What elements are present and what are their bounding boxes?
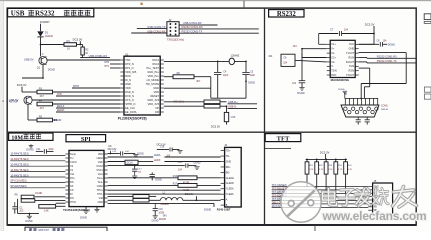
svg-text:4.7K: 4.7K	[309, 169, 314, 171]
svg-text:EECLK: EECLK	[57, 106, 65, 108]
svg-text:R1: R1	[67, 39, 71, 43]
svg-text:PL2303X(SSOP28): PL2303X(SSOP28)	[118, 117, 147, 121]
svg-text:4.7K: 4.7K	[328, 169, 333, 171]
svg-text:RXD: RXD	[125, 74, 131, 78]
svg-text:USB-5V: USB-5V	[24, 57, 34, 61]
svg-text:VDD: VDD	[98, 153, 103, 156]
svg-text:YLEDA: YLEDA	[226, 188, 234, 191]
svg-text:C1+: C1+	[331, 43, 336, 46]
svg-text:DGND: DGND	[194, 163, 201, 165]
svg-text:T2IN: T2IN	[331, 70, 337, 73]
svg-text:DGND: DGND	[204, 209, 211, 212]
svg-text:TPIN: TPIN	[70, 201, 76, 204]
svg-text:DC3.3V: DC3.3V	[365, 22, 375, 26]
svg-text:GND_3V3: GND_3V3	[147, 98, 159, 102]
svg-text:DGND: DGND	[26, 149, 33, 152]
svg-text:RTS: RTS	[105, 66, 110, 68]
svg-text:VCC: VCC	[349, 43, 354, 46]
svg-text:RX-: RX-	[70, 181, 74, 184]
svg-text:DGND: DGND	[388, 44, 395, 47]
svg-text:TRI_STATE: TRI_STATE	[146, 82, 160, 86]
svg-text:CLKO: CLKO	[70, 161, 77, 164]
svg-text:R1IN: R1IN	[349, 56, 355, 59]
svg-text:GLEDK: GLEDK	[226, 182, 235, 185]
svg-text:DGND: DGND	[155, 180, 162, 182]
svg-text:FB0608: FB0608	[161, 204, 170, 206]
svg-text:Q1: Q1	[37, 66, 41, 70]
svg-text:4.7K: 4.7K	[319, 169, 324, 171]
svg-text:DGND: DGND	[80, 217, 87, 220]
svg-text:VDD_3V3: VDD_3V3	[148, 102, 160, 106]
svg-text:MAX3232CSE: MAX3232CSE	[331, 78, 350, 82]
svg-text:C15: C15	[158, 209, 163, 211]
svg-text:C: C	[42, 53, 44, 56]
svg-text:104F: 104F	[48, 149, 54, 151]
svg-text:U1: U1	[125, 52, 129, 56]
svg-text:TFT: TFT	[277, 136, 290, 143]
svg-text:RESET: RESET	[151, 94, 160, 98]
svg-text:DM: DM	[155, 110, 159, 114]
svg-text:RJ45-10BT: RJ45-10BT	[217, 207, 231, 211]
svg-text:SPI: SPI	[81, 136, 91, 143]
svg-text:TD-: TD-	[226, 155, 230, 158]
svg-text:Vddtx: Vddtx	[97, 185, 104, 188]
svg-text:4K7: 4K7	[40, 95, 45, 98]
svg-text:DTR: DTR	[57, 94, 62, 96]
svg-text:USB: USB	[11, 10, 25, 18]
svg-text:RD+: RD+	[226, 166, 231, 169]
svg-text:GND: GND	[226, 160, 232, 163]
svg-text:TPO-: TPO-	[97, 193, 103, 196]
svg-text:DTR_N: DTR_N	[125, 62, 134, 66]
svg-text:4K7: 4K7	[40, 107, 45, 110]
svg-text:V-: V-	[331, 65, 333, 68]
svg-text:104: 104	[344, 27, 349, 31]
svg-text:C1-: C1-	[331, 52, 335, 55]
svg-text:1K: 1K	[67, 46, 70, 50]
svg-text:1.5K: 1.5K	[230, 116, 235, 119]
svg-text:RTS_N: RTS_N	[125, 66, 133, 70]
svg-text:DCD_N: DCD_N	[125, 94, 134, 98]
svg-text:4.7K: 4.7K	[338, 169, 343, 171]
svg-text:YLEDK: YLEDK	[226, 193, 234, 196]
svg-text:R2IN: R2IN	[349, 70, 355, 73]
svg-text:DGND: DGND	[35, 193, 42, 195]
svg-text:EEDAT: EEDAT	[57, 109, 65, 112]
svg-text:DC3.3V: DC3.3V	[73, 38, 83, 42]
svg-text:SK: SK	[70, 185, 74, 188]
svg-text:GND: GND	[349, 48, 355, 51]
svg-text:RS232: RS232	[35, 10, 55, 18]
svg-text:Vosc: Vosc	[98, 173, 104, 176]
svg-text:DGND: DGND	[25, 220, 32, 223]
svg-text:RS232: RS232	[277, 11, 296, 18]
svg-text:DGND: DGND	[297, 92, 305, 95]
svg-text:C7: C7	[330, 27, 334, 31]
svg-text:R2O: R2O	[331, 74, 336, 77]
svg-text:OSC2: OSC2	[96, 165, 103, 168]
svg-text:TXD(2&2Only): TXD(2&2Only)	[167, 38, 184, 42]
svg-text:DSR_N: DSR_N	[125, 90, 134, 94]
svg-text:DB9-M: DB9-M	[381, 109, 388, 111]
svg-text:R1OUT: R1OUT	[346, 61, 355, 64]
svg-text:DI: DI	[70, 193, 73, 196]
svg-text:T1OUT: T1OUT	[346, 52, 355, 55]
svg-text:SHTD: SHTD	[73, 86, 80, 88]
svg-text:COM1: COM1	[381, 105, 388, 107]
svg-text:OSC1: OSC1	[152, 58, 160, 62]
svg-text:GLEDA: GLEDA	[226, 177, 235, 180]
svg-text:GND_PLL: GND_PLL	[147, 70, 159, 74]
svg-text:DGND: DGND	[338, 89, 345, 91]
svg-text:DC3.3V: DC3.3V	[185, 193, 194, 196]
svg-text:TPO+: TPO+	[97, 189, 104, 192]
svg-text:SHTD_N: SHTD_N	[125, 102, 135, 106]
svg-text:DGND: DGND	[137, 153, 144, 155]
svg-text:USB-5V: USB-5V	[9, 98, 19, 102]
svg-text:102M: 102M	[158, 212, 164, 214]
svg-text:A: A	[2, 99, 4, 103]
svg-text:R4: R4	[39, 98, 43, 102]
svg-text:TD+: TD+	[226, 150, 231, 153]
svg-text:DGND: DGND	[48, 69, 55, 72]
svg-text:1N4148: 1N4148	[45, 36, 54, 38]
svg-text:RS232: RS232	[39, 228, 49, 231]
svg-text:EE_DATA: EE_DATA	[125, 110, 137, 114]
svg-text:R16: R16	[173, 176, 178, 178]
svg-text:DP: DP	[155, 106, 159, 110]
svg-text:VDD_PLL: VDD_PLL	[148, 74, 160, 78]
svg-text:PLL_TEST: PLL_TEST	[147, 66, 160, 70]
svg-text:104: 104	[283, 61, 288, 64]
svg-text:RX+: RX+	[70, 177, 75, 180]
svg-text:C2+: C2+	[331, 56, 336, 59]
svg-text:22pF: 22pF	[250, 75, 256, 77]
svg-text:4K7: 4K7	[196, 81, 201, 83]
svg-text:T2OUT: T2OUT	[346, 74, 355, 77]
svg-text:DC3.3V: DC3.3V	[17, 83, 27, 87]
svg-text:LEDA: LEDA	[154, 153, 161, 157]
svg-text:1N4007: 1N4007	[40, 20, 50, 24]
svg-text:OSC2: OSC2	[152, 62, 160, 66]
svg-text:LEDK: LEDK	[154, 158, 161, 162]
svg-text:CTS_N: CTS_N	[125, 98, 134, 102]
svg-text:DGND: DGND	[54, 118, 62, 122]
svg-text:www.elecfans.com: www.elecfans.com	[322, 209, 427, 223]
svg-text:Tout+: Tout+	[97, 177, 104, 180]
svg-text:DTR: DTR	[104, 62, 109, 64]
svg-text:GND: GND	[98, 201, 104, 204]
svg-text:EE_CLK: EE_CLK	[125, 106, 135, 110]
svg-text:VDD: VDD	[125, 86, 131, 90]
svg-text:TXD: TXD	[125, 58, 130, 62]
svg-text:VDD: VDD	[154, 90, 160, 94]
svg-text:DO: DO	[70, 197, 74, 200]
svg-text:Vdd: Vdd	[99, 197, 104, 200]
svg-text:DC3.3V: DC3.3V	[320, 150, 330, 154]
svg-text:22pF: 22pF	[223, 75, 229, 77]
svg-text:10M: 10M	[11, 135, 23, 141]
svg-text:C2-: C2-	[331, 61, 335, 64]
svg-text:DCLK: DCLK	[127, 163, 134, 165]
svg-text:USB-COM1-RX: USB-COM1-RX	[89, 54, 108, 58]
svg-text:R3: R3	[39, 86, 43, 90]
svg-text:GND: GND	[125, 82, 131, 86]
svg-text:Temp: Temp	[70, 153, 77, 156]
svg-text:DGND: DGND	[248, 82, 255, 84]
svg-text:C14: C14	[178, 162, 183, 164]
svg-text:DGND: DGND	[159, 218, 166, 221]
svg-text:R5: R5	[39, 114, 43, 118]
svg-text:4.7K: 4.7K	[348, 169, 353, 171]
svg-text:VDD_325: VDD_325	[125, 70, 137, 74]
svg-text:CS: CS	[70, 189, 74, 192]
svg-text:12MHZ: 12MHZ	[231, 54, 240, 58]
svg-text:LEDA: LEDA	[97, 157, 104, 160]
svg-text:Tout-: Tout-	[98, 181, 104, 184]
svg-text:R17: R17	[173, 184, 178, 186]
svg-text:GND: GND	[153, 86, 159, 90]
svg-text:DGND: DGND	[152, 220, 159, 222]
svg-text:LD_MODE: LD_MODE	[147, 78, 160, 82]
svg-text:OSC1: OSC1	[96, 169, 103, 172]
svg-text:DC3.3V: DC3.3V	[211, 125, 220, 129]
svg-text:T1IN: T1IN	[349, 65, 355, 68]
svg-text:RD-: RD-	[226, 171, 230, 174]
svg-text:RI_N: RI_N	[125, 78, 131, 82]
svg-text:D1: D1	[45, 30, 49, 34]
svg-text:Vddr: Vddr	[98, 161, 103, 164]
svg-text:1.6K: 1.6K	[44, 210, 49, 213]
